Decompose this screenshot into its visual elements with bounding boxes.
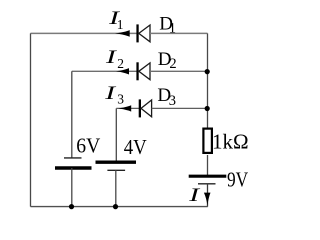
node: junction dot 6V/rail [69,204,74,209]
node: junction dot D2/bus [205,69,210,74]
battery 4V short plate [107,169,125,171]
svg-text:2: 2 [169,56,176,72]
wire: 9V battery to bottom rail [207,184,209,207]
svg-text:3: 3 [169,93,176,109]
wire: row 2 horizontal from corner to D2 [72,70,137,72]
svg-text:2: 2 [117,56,124,71]
svg-text:4V: 4V [124,135,148,159]
current arrow I1 (points left) [115,30,130,37]
wire: resistor to 9V battery [207,155,209,175]
diode D1 cathode bar [136,24,138,42]
wire: bottom rail [31,206,208,208]
current arrow I (points down) [204,193,211,206]
wire: row 2 drop to 6V battery [71,71,73,158]
wire: 4V battery to bottom rail [115,170,117,206]
svg-text:1: 1 [117,17,124,32]
wire: left outer vertical [30,33,32,206]
battery 9V long plate [189,175,227,178]
diode D3 triangle [141,100,152,117]
wire: 6V battery to bottom rail [71,168,73,207]
resistor R 1k [203,129,212,153]
battery 6V short plate [64,157,82,159]
wire: row 3 horizontal from corner to D3 [116,107,139,109]
wire: row 2 from D2 to right bus [150,70,208,72]
node: junction dot D3/bus [205,106,210,111]
svg-text:I: I [104,83,118,104]
svg-text:6V: 6V [76,133,101,157]
wire: row 1 from D1 to right bus [150,32,208,34]
current arrow I2 (points left) [116,68,129,74]
svg-text:3: 3 [117,91,124,106]
wire: top row 1 horizontal from left corner to D1 [31,32,138,34]
current arrow I3 (points left) [118,105,131,111]
battery 4V long plate [96,160,137,163]
svg-text:9V: 9V [227,167,249,191]
diode D3 cathode bar [139,99,141,117]
battery 9V short plate [198,183,216,185]
diode D2 triangle [139,63,150,80]
diode D1 triangle [139,25,150,42]
wire: right bus vertical [207,33,209,127]
node: junction dot 4V/rail [113,204,118,209]
diode D2 cathode bar [136,62,138,80]
svg-text:I: I [188,185,202,206]
wire: row 3 drop to 4V battery [115,108,117,161]
wire: row 3 from D3 to right bus [152,107,208,109]
battery 6V long plate [55,166,92,169]
svg-text:1kΩ: 1kΩ [212,129,249,153]
